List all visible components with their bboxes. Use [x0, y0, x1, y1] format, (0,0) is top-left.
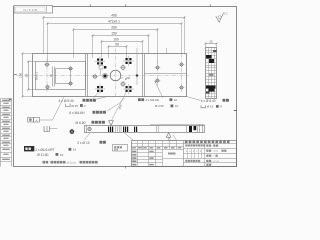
svg-text:2 x M4-6H: 2 x M4-6H	[146, 98, 159, 102]
svg-text:Ø 6.80: Ø 6.80	[76, 121, 86, 125]
svg-text:10: 10	[174, 98, 178, 102]
svg-text:472±0.1: 472±0.1	[108, 20, 120, 24]
svg-text:25: 25	[209, 39, 213, 43]
svg-text:85±0.1: 85±0.1	[34, 71, 38, 79]
svg-text:4 x Ø 5.40: 4 x Ø 5.40	[59, 99, 74, 103]
svg-text:±0.1mm,: ±0.1mm,	[67, 160, 77, 164]
svg-text:100: 100	[19, 72, 23, 77]
svg-text:A: A	[36, 118, 38, 122]
svg-text:10: 10	[60, 153, 64, 157]
svg-text:6 x M4-6H: 6 x M4-6H	[69, 111, 85, 115]
svg-text:86: 86	[25, 73, 29, 77]
svg-text:90: 90	[115, 43, 119, 47]
svg-text:6061: 6061	[213, 151, 219, 153]
svg-text:Ø 4.50: Ø 4.50	[155, 104, 164, 108]
svg-text:±a 7F-9 BL.: ±a 7F-9 BL.	[23, 8, 39, 12]
svg-text:3.2: 3.2	[224, 12, 228, 16]
svg-text:280: 280	[111, 26, 117, 30]
svg-text:Ø 15: Ø 15	[207, 105, 214, 109]
svg-text:10: 10	[175, 104, 179, 108]
svg-text:496: 496	[111, 14, 117, 18]
svg-text:4 x Ø 8.40: 4 x Ø 8.40	[201, 99, 216, 103]
svg-text:2 x Ø 10: 2 x Ø 10	[77, 141, 90, 145]
svg-text:Ø 15: Ø 15	[72, 104, 79, 108]
svg-text:10: 10	[73, 148, 77, 152]
svg-text:100: 100	[113, 38, 119, 42]
svg-text:150: 150	[111, 32, 117, 36]
svg-text:LP-01: LP-01	[213, 161, 220, 163]
svg-text:2 x Ø1/4-NPT: 2 x Ø1/4-NPT	[35, 148, 55, 152]
svg-text:Ø 11.80: Ø 11.80	[37, 153, 48, 157]
